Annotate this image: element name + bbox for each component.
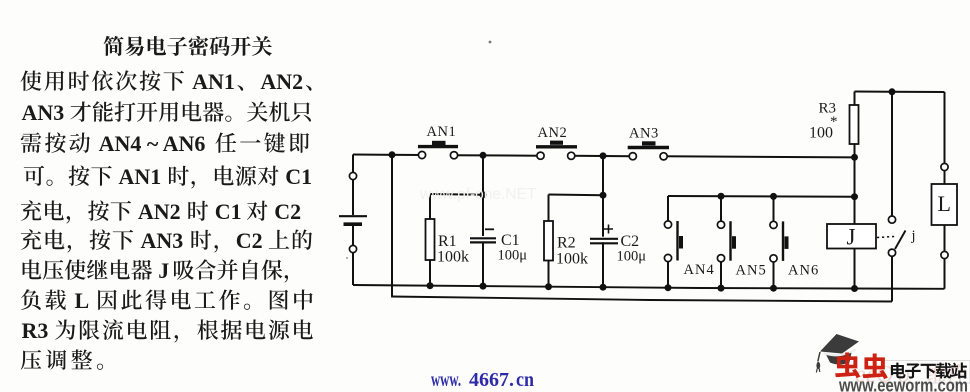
svg-text:j: j xyxy=(911,228,916,244)
svg-text:C1: C1 xyxy=(215,199,242,224)
svg-text:www.eeworm.com: www.eeworm.com xyxy=(838,375,968,392)
junction dots top rail xyxy=(389,151,607,159)
svg-text:AN1: AN1 xyxy=(427,124,457,140)
svg-text:L: L xyxy=(938,191,951,216)
label R3 value 100 xyxy=(809,125,833,142)
svg-text:www.: www. xyxy=(431,369,461,391)
label J xyxy=(847,225,856,250)
svg-text:AN4: AN4 xyxy=(684,262,715,278)
wire AN5 column xyxy=(720,196,722,288)
battery B plates xyxy=(339,216,367,224)
svg-text:AN2: AN2 xyxy=(138,199,181,224)
speck noise xyxy=(346,41,491,259)
label L xyxy=(938,191,951,216)
junction dots R1/R2 top connections xyxy=(480,191,607,198)
pushbutton AN1 xyxy=(418,141,458,159)
svg-text:AN4 ~ AN6: AN4 ~ AN6 xyxy=(99,131,206,156)
pushbutton AN3 xyxy=(628,141,669,160)
label R2 value 100k xyxy=(556,251,588,268)
label R2 xyxy=(557,235,576,252)
faint pink watermark xyxy=(855,362,967,388)
label R1 value 100k xyxy=(437,249,469,266)
load L box xyxy=(932,184,958,225)
wire load branch xyxy=(944,92,946,289)
logo graduation cap xyxy=(816,334,859,373)
label AN6 xyxy=(788,263,819,279)
blue url www.4667.cn xyxy=(431,369,534,391)
junction dot AN3 wire to R3 xyxy=(851,154,858,161)
label R1 xyxy=(438,233,457,250)
wire riser to relay contact j xyxy=(891,253,893,302)
junction dots AN4-6 bus xyxy=(718,193,859,201)
wire lower return rail (battery plus) xyxy=(391,297,892,302)
pushbutton AN6 xyxy=(770,221,789,262)
svg-text:100k: 100k xyxy=(437,249,469,266)
junction dots bottom rail xyxy=(427,282,859,292)
junction dot top-right rail xyxy=(889,88,896,95)
logo text 虫虫 red xyxy=(835,352,888,379)
svg-text:R1: R1 xyxy=(438,233,457,250)
wire top rail segment AN2 to AN3 xyxy=(571,155,633,157)
svg-text:AN3: AN3 xyxy=(22,100,65,125)
label C2 value 100μ xyxy=(617,249,647,265)
wire bottom rail (battery minus) xyxy=(353,285,945,289)
resistor R3 xyxy=(850,105,859,144)
svg-text:100μ: 100μ xyxy=(498,248,528,264)
svg-text:C1: C1 xyxy=(501,232,520,249)
wire contact branch from top rail xyxy=(891,92,893,220)
svg-text:100k: 100k xyxy=(556,251,588,268)
capacitor C2 plates with polarity + xyxy=(590,225,618,244)
wire top rail segment AN1 to AN2 xyxy=(454,154,541,157)
svg-text:L: L xyxy=(75,288,90,313)
wire top-right rail xyxy=(855,91,945,94)
label j xyxy=(911,228,916,244)
svg-text:R2: R2 xyxy=(557,235,576,252)
label R3 adjust mark * xyxy=(830,114,838,130)
logo url www.eeworm.com xyxy=(838,375,968,392)
battery terminal circles xyxy=(349,172,356,252)
title text 简易电子密码开关 xyxy=(104,36,272,56)
svg-text:AN3: AN3 xyxy=(629,125,659,141)
wire AN6 column xyxy=(773,196,775,288)
wire AN4 column xyxy=(667,196,669,288)
svg-text:J: J xyxy=(847,225,856,250)
svg-text:AN2: AN2 xyxy=(260,69,303,94)
pushbutton AN5 xyxy=(717,221,736,262)
description paragraph xyxy=(21,69,313,370)
label AN3 xyxy=(629,125,659,141)
relay contact j (normally open) xyxy=(877,216,906,256)
svg-text:R3: R3 xyxy=(22,318,49,343)
label AN5 xyxy=(736,262,767,278)
load terminal circles xyxy=(941,163,948,258)
svg-text:www.pf-one.NET: www.pf-one.NET xyxy=(419,186,537,203)
svg-text:C2: C2 xyxy=(236,228,263,253)
svg-text:C2: C2 xyxy=(274,199,301,224)
wire top rail segment battery to AN1 xyxy=(353,154,422,157)
svg-text:100μ: 100μ xyxy=(617,249,647,265)
label C1 xyxy=(501,232,520,249)
relay coil J box xyxy=(827,224,876,249)
svg-text:J: J xyxy=(158,258,169,283)
label R3 xyxy=(819,101,837,117)
wire R3 / relay coil branch xyxy=(854,92,856,289)
svg-text:cn: cn xyxy=(516,369,534,391)
svg-text:AN5: AN5 xyxy=(736,262,767,278)
wire AN4-AN6 top bus xyxy=(668,195,855,198)
logo text 电子下载站 xyxy=(891,363,967,379)
faint watermark box xyxy=(884,361,970,384)
resistor R2 xyxy=(544,221,553,261)
label AN1 xyxy=(427,124,457,140)
capacitor C1 plates xyxy=(470,229,496,242)
svg-text:AN3: AN3 xyxy=(141,228,184,253)
svg-text:100: 100 xyxy=(809,125,833,142)
label AN4 xyxy=(684,262,715,278)
wire battery branch vertical xyxy=(352,155,354,286)
svg-text:C1: C1 xyxy=(285,164,312,189)
svg-text:4667.: 4667. xyxy=(469,369,514,391)
svg-text:AN1: AN1 xyxy=(192,69,235,94)
pushbutton AN2 xyxy=(536,141,577,160)
wire R1 branch xyxy=(430,194,483,286)
label C2 xyxy=(621,233,640,250)
wire C2 branch xyxy=(602,156,604,287)
svg-text:C2: C2 xyxy=(621,233,640,250)
wire battery plus drop at x392 xyxy=(391,155,393,297)
wire top rail segment AN3 to R3 branch xyxy=(664,156,855,157)
svg-text:AN2: AN2 xyxy=(538,125,568,141)
resistor R1 xyxy=(426,219,435,260)
pushbutton AN4 xyxy=(664,221,683,262)
wire R2 branch xyxy=(549,195,604,287)
label C1 value 100μ xyxy=(498,248,528,264)
label AN2 xyxy=(538,125,568,141)
wire C1 branch xyxy=(482,155,484,286)
svg-text:AN6: AN6 xyxy=(788,263,819,279)
svg-text:AN1: AN1 xyxy=(119,164,162,189)
faint watermark www.pf-one.NET xyxy=(419,186,537,203)
